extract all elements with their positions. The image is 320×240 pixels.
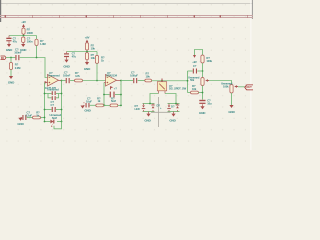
wire switch to right clipper bbox=[165, 94, 176, 104]
capacitor C12 coupling after U2 bbox=[121, 71, 138, 84]
svg-text:GND: GND bbox=[63, 64, 70, 68]
resistor R9 gain chain U2 bbox=[96, 96, 104, 107]
wire pot bottom rail bbox=[202, 86, 204, 100]
svg-text:OUT: OUT bbox=[246, 85, 252, 89]
resistor R13 source bbox=[188, 84, 203, 94]
svg-text:GND: GND bbox=[199, 111, 206, 115]
wire pot to ground bbox=[231, 93, 233, 105]
svg-text:100nF: 100nF bbox=[63, 73, 71, 77]
junction bbox=[104, 105, 106, 107]
svg-text:2.2uF: 2.2uF bbox=[26, 113, 33, 117]
op-amp U2 bbox=[104, 71, 121, 86]
capacitor C8 coupling after U1 bbox=[62, 71, 71, 84]
svg-text:GND: GND bbox=[84, 108, 91, 112]
resistor R1 100R bbox=[22, 28, 33, 36]
svg-text:LED: LED bbox=[135, 107, 140, 111]
svg-text:GND: GND bbox=[169, 119, 176, 123]
diode pair right clipper bbox=[167, 103, 179, 112]
wire output rail U1 bbox=[61, 81, 63, 122]
ground bbox=[21, 44, 25, 47]
svg-text:47u: 47u bbox=[13, 40, 18, 44]
wire divider node bbox=[67, 51, 98, 53]
wire output rail U2 bbox=[120, 81, 122, 106]
ground bbox=[9, 76, 13, 79]
svg-text:C?: C? bbox=[51, 103, 55, 107]
junction bbox=[10, 57, 12, 59]
capacitor C11 gain chain U2 bbox=[83, 97, 96, 108]
resistor R4 gain chain bbox=[33, 111, 46, 119]
wire input node to op-amp bbox=[20, 58, 48, 78]
resistor R2 1.0M bias bbox=[35, 36, 46, 47]
svg-text:47u: 47u bbox=[72, 55, 77, 59]
junction bbox=[202, 92, 204, 94]
svg-text:GND: GND bbox=[17, 122, 24, 126]
svg-text:100k: 100k bbox=[206, 59, 212, 63]
svg-text:OPA2134: OPA2134 bbox=[106, 74, 117, 78]
capacitor C1 47u bbox=[6, 36, 17, 45]
svg-text:DG_SPDT_SW: DG_SPDT_SW bbox=[169, 87, 187, 91]
pot RV2 volume bbox=[221, 82, 238, 93]
wire bbox=[10, 70, 12, 77]
wire loop below D1 bbox=[54, 122, 62, 129]
svg-text:C?: C? bbox=[193, 64, 197, 68]
resistor R10 feedback U2 bbox=[104, 96, 122, 107]
resistor R3 2.2M pulldown bbox=[9, 58, 21, 70]
resistor R7 divider bottom bbox=[85, 53, 95, 62]
resistor R11 series bbox=[138, 72, 152, 82]
wire through switch node to output stage bbox=[152, 80, 188, 82]
svg-text:1.0M: 1.0M bbox=[40, 42, 46, 46]
op-amp U1 bbox=[45, 71, 62, 90]
ground bbox=[7, 44, 11, 47]
junction bbox=[36, 57, 38, 59]
power +9V PWR1 bbox=[21, 20, 26, 28]
ground bbox=[17, 118, 24, 126]
resistor R5 series bbox=[70, 71, 82, 82]
no-connect flag U1 pin bbox=[45, 81, 47, 84]
resistor R6 divider top bbox=[85, 43, 95, 52]
svg-text:GND: GND bbox=[84, 67, 91, 71]
junction bbox=[161, 80, 163, 82]
svg-text:Unnamed: Unnamed bbox=[47, 88, 59, 92]
wire wiper to OUT bbox=[238, 86, 245, 88]
junction bbox=[61, 80, 63, 82]
svg-text:DI: DI bbox=[1, 56, 4, 60]
svg-text:GND: GND bbox=[228, 110, 235, 114]
svg-text:100k: 100k bbox=[223, 84, 229, 88]
global label DI bbox=[1, 56, 7, 60]
ground bbox=[169, 112, 176, 123]
svg-text:GND: GND bbox=[144, 119, 151, 123]
svg-text:C?: C? bbox=[15, 48, 19, 52]
ground bbox=[85, 62, 89, 65]
junction bbox=[86, 51, 88, 53]
capacitor C4 feedback bbox=[44, 88, 63, 95]
ground bbox=[144, 112, 151, 123]
svg-text:GND: GND bbox=[8, 81, 15, 85]
capacitor C14 output electrolytic bbox=[199, 99, 212, 107]
wire left rail bbox=[187, 71, 189, 93]
no-connect flag U2 pin bbox=[111, 86, 118, 90]
svg-text:50k: 50k bbox=[190, 78, 195, 82]
ground bbox=[200, 106, 204, 109]
svg-text:10k: 10k bbox=[146, 74, 151, 78]
wire switch to left clipper bbox=[150, 94, 159, 104]
capacitor C2 100n bbox=[22, 36, 33, 44]
junction bbox=[120, 80, 122, 82]
svg-text:10u: 10u bbox=[207, 101, 212, 105]
svg-text:4.7k: 4.7k bbox=[75, 74, 80, 78]
wire to U2 bbox=[83, 80, 106, 82]
junction bbox=[96, 80, 98, 82]
capacitor C5 feedback 2 bbox=[48, 94, 59, 105]
capacitor C13 bbox=[188, 64, 203, 74]
diode pair left clipper bbox=[135, 103, 163, 112]
svg-text:+9V: +9V bbox=[85, 36, 90, 40]
power +9V PWR2 bbox=[85, 36, 90, 43]
capacitor C3 100nF input bbox=[14, 48, 22, 61]
svg-text:D?: D? bbox=[171, 105, 175, 109]
wire bias to input node bbox=[36, 46, 38, 58]
capacitor C10 feedback U2 bbox=[103, 92, 122, 98]
svg-text:Unnamed: Unnamed bbox=[48, 74, 60, 78]
svg-text:10k: 10k bbox=[91, 46, 96, 50]
trimmer RV1 bbox=[188, 75, 209, 85]
ground bbox=[229, 105, 233, 108]
ground bbox=[64, 60, 68, 63]
resistor R8 bias feed bbox=[95, 52, 104, 81]
sheet frame top gray line bbox=[0, 3, 253, 5]
wire supply node bbox=[9, 35, 37, 37]
wire feedback rail left U2 bbox=[103, 83, 105, 106]
power +9V PWR3 bbox=[192, 50, 202, 65]
diode D1 feedback bbox=[44, 120, 63, 127]
svg-text:10k: 10k bbox=[192, 87, 197, 91]
svg-text:+9V: +9V bbox=[21, 20, 26, 24]
frame border double line with division ticks bbox=[0, 16, 253, 18]
svg-text:+9V: +9V bbox=[192, 60, 197, 64]
analog switch U3 bbox=[157, 79, 186, 94]
wire rail bbox=[202, 63, 204, 78]
resistor R12 drain load bbox=[201, 55, 213, 63]
junction bbox=[23, 35, 25, 37]
wire input bbox=[6, 57, 15, 59]
wire wiper to volume pot bbox=[209, 81, 232, 85]
svg-text:100R: 100R bbox=[27, 31, 33, 35]
capacitor C9 bypass bbox=[64, 52, 76, 60]
svg-text:10k: 10k bbox=[91, 56, 96, 60]
svg-text:0.05uF: 0.05uF bbox=[130, 73, 138, 77]
svg-text:GND: GND bbox=[6, 48, 13, 52]
svg-text:100n: 100n bbox=[27, 39, 33, 43]
wire feedback rail left U1 bbox=[44, 83, 46, 122]
junction bbox=[187, 80, 189, 82]
svg-text:10uF: 10uF bbox=[86, 99, 92, 103]
svg-text:+?: +? bbox=[114, 86, 117, 90]
svg-text:2.2M: 2.2M bbox=[15, 66, 21, 70]
junction bbox=[202, 70, 204, 72]
global label OUT bbox=[245, 85, 253, 90]
capacitor C6 feedback 3 bbox=[44, 103, 63, 120]
gray annotation cross bbox=[151, 97, 171, 127]
ground bbox=[81, 105, 92, 112]
capacitor C7 gain chain bbox=[22, 111, 32, 120]
